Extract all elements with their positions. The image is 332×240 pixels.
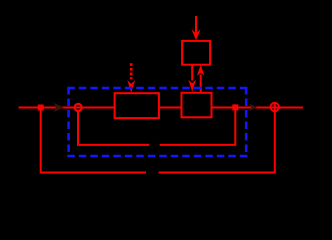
summing junction right (crossed circle) — [271, 103, 279, 111]
wire input line (left, into summing junction and through to block G1) — [19, 107, 182, 109]
subsystem boundary (blue dashed box) top edge — [67, 87, 247, 90]
subsystem boundary bottom edge — [67, 155, 247, 158]
wire inner feedback left (from left summing junction down to inner bottom line) — [78, 111, 149, 145]
node output branch (filled square junction) — [232, 104, 238, 110]
arrowhead dark right (on output line before right summing junction) — [250, 104, 258, 111]
wire up arrow from block G2 into block P — [200, 75, 202, 93]
node input branch (filled square junction) — [38, 105, 44, 111]
wire down arrow from block P into block G2 — [191, 65, 193, 81]
subsystem boundary right edge — [245, 87, 248, 157]
arrowhead dark left (on input line before left summing junction) — [54, 103, 64, 112]
wire inner feedback right (from right node down to inner bottom line) — [160, 110, 236, 145]
arrowhead dark bottom (on feedforward bottom line) — [146, 168, 158, 177]
arrowhead dark inner (on inner feedback line, pointing left) — [149, 140, 159, 149]
wire feedforward bottom-right and up into output summing junction — [159, 102, 275, 173]
summing junction left (circle) — [75, 104, 82, 111]
wire dotted arrow into block G1 — [130, 63, 133, 79]
block P (top block outside subsystem) — [182, 41, 210, 65]
wire feedforward down-left (from input node down and along bottom) — [41, 108, 146, 173]
wire top input arrow into block P — [195, 16, 197, 34]
block G1 (left block inside dashed subsystem) — [115, 93, 159, 118]
wire output line (from block G2 through right node and summing junction to output) — [212, 107, 303, 109]
subsystem boundary left edge — [67, 87, 70, 157]
block G2 (right block inside dashed subsystem) — [182, 93, 212, 118]
